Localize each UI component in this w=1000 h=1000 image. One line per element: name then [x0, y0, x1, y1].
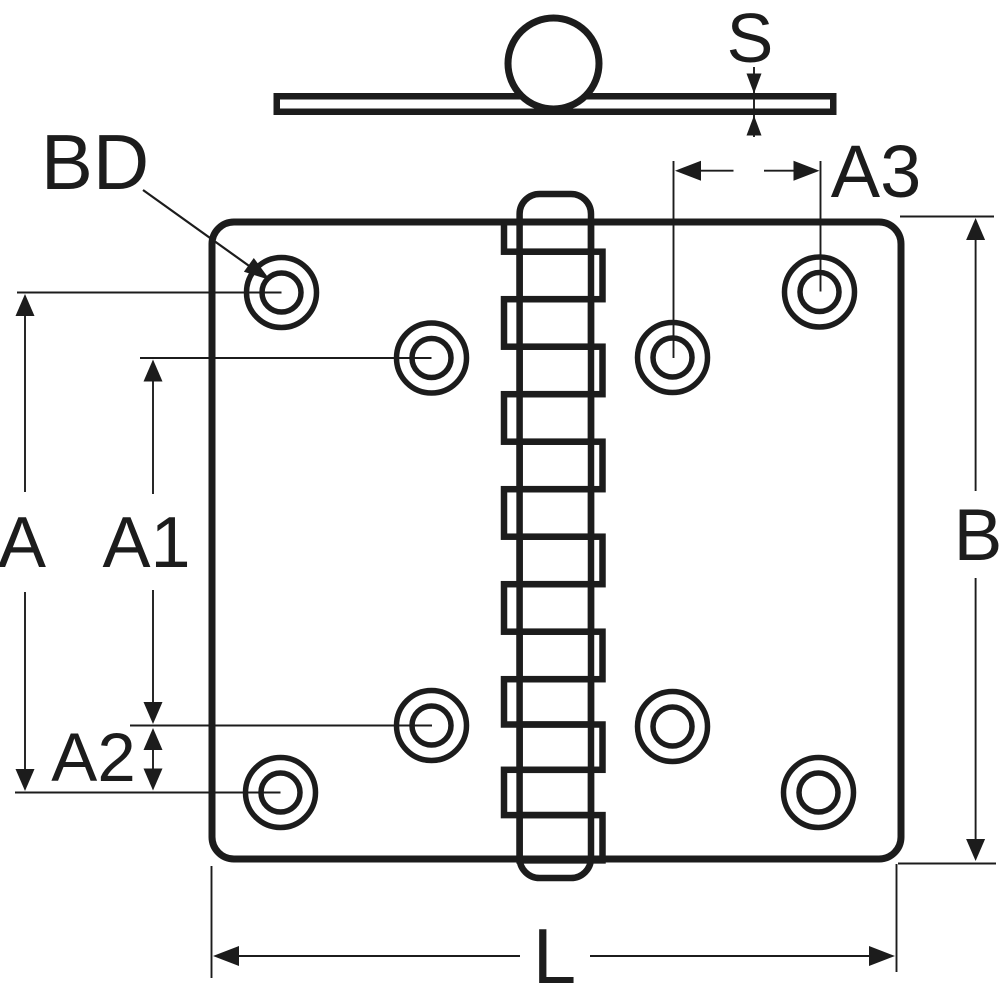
svg-text:A: A: [0, 503, 46, 583]
svg-text:BD: BD: [41, 118, 149, 206]
svg-text:A1: A1: [102, 503, 190, 583]
svg-text:B: B: [954, 495, 1000, 576]
svg-text:A3: A3: [831, 130, 922, 213]
svg-text:A2: A2: [51, 719, 135, 796]
svg-text:S: S: [727, 0, 774, 77]
svg-text:L: L: [533, 912, 576, 1000]
